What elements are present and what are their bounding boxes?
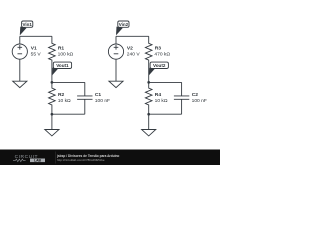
svg-text:10 kΩ: 10 kΩ [155,98,168,104]
label C1 name [95,92,102,98]
label R1 value 100 kOhm [58,51,74,57]
ground (under V1) [13,81,27,87]
svg-text:V2: V2 [127,45,133,51]
svg-text:V1: V1 [31,45,37,51]
label V1 value 55 V [31,51,42,57]
label R2 value 10 kOhm [58,98,71,104]
resistor R1 [49,36,56,82]
wire: Vin2 node to R3 top (horizontal) [116,35,149,37]
wire: C2 bottom to junction [149,113,182,115]
svg-text:http://circuitlab.com/c/78hcd9: http://circuitlab.com/c/78hcd9fk5zke [57,158,105,162]
wire: Vin1 node to R1 top (horizontal) [20,35,52,37]
net flag Vout2 [149,62,169,75]
svg-text:100 nF: 100 nF [192,98,207,104]
svg-text:470 kΩ: 470 kΩ [154,51,170,57]
label C1 value 100 nF [95,98,110,104]
net flag Vin2 [116,21,129,35]
svg-text:10 kΩ: 10 kΩ [58,98,71,104]
svg-text:Vout1: Vout1 [56,63,69,68]
label R4 name [155,92,162,98]
label R3 value 470 kOhm [154,51,170,57]
wire: junction down to ground [148,114,150,129]
junction node (R3/R4/C2 top) [147,81,150,84]
wire: V1 bottom to ground [19,59,21,81]
label V2 value 240 V [127,51,141,57]
label C2 name [192,92,199,98]
wire: junction to C1 top [52,81,85,83]
net flag Vout1 [52,62,72,75]
footer text line 1: user / title [56,154,119,158]
ground (under V2) [109,81,123,87]
svg-text:100 kΩ: 100 kΩ [58,51,74,57]
svg-text:C2: C2 [192,92,199,98]
junction node (R2/C1 bottom) [51,113,54,116]
wire: junction down to ground [51,114,53,129]
svg-text:R1: R1 [58,45,65,51]
wire: junction to C2 top [149,81,182,83]
svg-text:240 V: 240 V [127,51,141,57]
wire: Vin2 node down to V2 top [115,36,117,44]
resistor R2 [49,82,56,114]
voltage source V1 [12,44,27,59]
label C2 value 100 nF [192,98,207,104]
label R2 name [58,92,65,98]
label R1 name [58,45,65,51]
svg-text:C1: C1 [95,92,102,98]
svg-text:Vout2: Vout2 [153,63,166,68]
svg-text:LAB: LAB [34,159,42,163]
capacitor C2 [174,82,189,114]
svg-text:55 V: 55 V [31,51,42,57]
junction node (R4/C2 bottom) [147,113,150,116]
label R4 value 10 kOhm [155,98,168,104]
wire: C1 bottom to junction [52,113,85,115]
label R3 name [155,45,162,51]
footer separator [55,152,57,164]
svg-text:R3: R3 [155,45,162,51]
resistor R3 [145,36,152,82]
footer text line 2: url [57,158,105,162]
CircuitLab logo wordmark [13,154,45,162]
svg-text:Vin1: Vin1 [22,22,32,27]
svg-text:R4: R4 [155,92,162,98]
net flag Vin1 [20,21,33,35]
ground (bottom left) [45,130,59,136]
voltage source V2 [108,44,123,59]
svg-text:100 nF: 100 nF [95,98,110,104]
label V1 name [31,45,37,51]
svg-text:Vin2: Vin2 [119,22,129,27]
wire: V2 bottom to ground [115,59,117,81]
ground (bottom right) [142,130,156,136]
capacitor C1 [77,82,92,114]
junction node (R1/R2/C1 top) [51,81,54,84]
resistor R4 [145,82,152,114]
wire: Vin1 node down to V1 top [19,36,21,44]
label V2 name [127,45,133,51]
svg-text:R2: R2 [58,92,65,98]
